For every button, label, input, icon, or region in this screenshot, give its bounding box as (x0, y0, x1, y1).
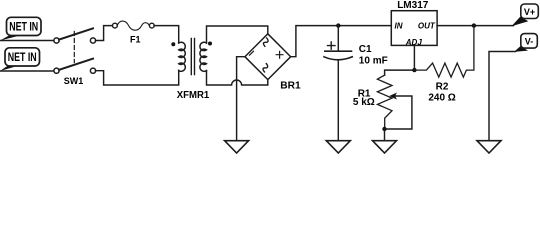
svg-text:IN: IN (395, 21, 403, 30)
switch SW1 gang link (dashed) (73, 32, 75, 63)
capacitor C1 bottom plate (curved) (324, 57, 352, 60)
callout V+ (512, 4, 539, 26)
R1 wiper arrowhead (389, 93, 397, 100)
switch SW1 pole 1 terminal (right) (90, 38, 95, 43)
ground (R1) (373, 141, 397, 153)
wire: bridge minus (left vertex) to ground (237, 57, 245, 141)
svg-text:5 kΩ: 5 kΩ (353, 97, 375, 108)
BR1 mark plus (right) (276, 51, 283, 58)
svg-text:NET IN: NET IN (9, 20, 38, 34)
R1 wiper arrow (387, 96, 412, 129)
wire: net-in top to SW1 pole1 (0, 40, 54, 42)
svg-text:XFMR1: XFMR1 (177, 89, 210, 101)
wire: SW1 pole2 to XFMR1 primary bottom (96, 70, 179, 85)
switch SW1 pole 2 terminal (left) (54, 68, 59, 73)
resistor R2 (zigzag) (414, 26, 474, 78)
svg-text:R2: R2 (436, 82, 449, 93)
BR1 mark ~ (top) (263, 38, 268, 46)
wire: secondary top to bridge top vertex (207, 26, 268, 43)
svg-text:V+: V+ (524, 7, 535, 17)
svg-text:ADJ: ADJ (405, 38, 423, 47)
fuse F1 right terminal (149, 23, 154, 28)
potentiometer R1 (zigzag) (377, 75, 392, 129)
transformer XFMR1 primary winding (179, 42, 186, 71)
XFMR1 core (191, 39, 194, 75)
capacitor C1 lead (top) (337, 26, 339, 51)
fuse F1 left terminal (113, 23, 118, 28)
capacitor C1 lead (bottom) to ground (337, 60, 339, 140)
bridge rectifier BR1 body (245, 34, 291, 80)
svg-text:OUT: OUT (418, 21, 436, 30)
callout V- (514, 34, 537, 52)
svg-text:NET IN: NET IN (8, 50, 37, 64)
svg-text:V-: V- (525, 37, 534, 47)
wire: fuse to XFMR1 primary top (154, 26, 179, 43)
regulator U1 LM317 box (391, 11, 437, 46)
callout NET IN (top) (0, 17, 41, 40)
junction dot R1 bottom (382, 127, 386, 131)
BR1 mark ~ (bottom) (263, 64, 268, 72)
XFMR1 phase dot (secondary) (208, 42, 212, 46)
wire: secondary bottom to bridge bottom vertex (with hop) (207, 71, 268, 85)
svg-text:LM317: LM317 (397, 0, 428, 11)
callout NET IN (bottom) (0, 48, 40, 71)
wire: R1 bottom to ground (384, 129, 386, 141)
wire: ADJ node to R1 top (385, 70, 415, 75)
wire: V- callout to ground (489, 52, 516, 141)
fuse F1 element (wave) (117, 21, 149, 30)
ground (V-) (477, 141, 501, 153)
junction dot C1 top (336, 23, 340, 27)
svg-text:SW1: SW1 (64, 76, 84, 86)
ground (C1) (326, 141, 350, 153)
svg-text:C1: C1 (359, 44, 372, 55)
ground (bridge minus) (225, 141, 249, 153)
BR1 mark minus (left) (250, 51, 254, 55)
wire: net-in bottom to SW1 pole2 (0, 70, 54, 72)
svg-text:BR1: BR1 (280, 81, 301, 92)
junction dot OUT node (472, 23, 476, 27)
switch SW1 pole 2 arm (59, 59, 93, 70)
wire: SW1 pole1 to fuse F1 (96, 26, 113, 41)
junction dot ADJ node (412, 68, 416, 72)
svg-text:F1: F1 (130, 34, 141, 44)
capacitor C1 top plate (325, 50, 352, 52)
transformer XFMR1 secondary winding (200, 42, 207, 71)
wire: LM317 OUT to V+ callout (437, 25, 513, 27)
C1 plus sign (328, 42, 336, 49)
wire: bridge plus to top bus (to C1 / LM317 IN) (291, 26, 392, 57)
switch SW1 pole 1 arm (59, 28, 93, 39)
svg-text:240 Ω: 240 Ω (428, 93, 455, 104)
wire: LM317 ADJ down to R2 node (413, 45, 415, 70)
switch SW1 pole 1 terminal (left) (54, 38, 59, 43)
svg-text:10 mF: 10 mF (359, 56, 388, 67)
XFMR1 phase dot (primary) (171, 42, 175, 46)
switch SW1 pole 2 terminal (right) (90, 68, 95, 73)
